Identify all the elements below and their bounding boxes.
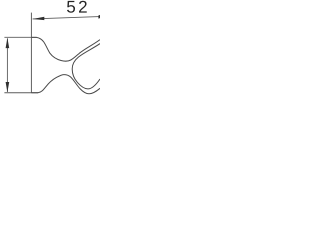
object bottom edge: fillet, hump, outer cup bottom [31, 75, 100, 94]
top edge extension line [4, 36, 36, 38]
arrowhead down (left dim) [6, 82, 10, 92]
rim ellipse (inner edge of cup mouth) [72, 44, 100, 89]
object top edge: fillet, saddle, upper flare [31, 37, 100, 61]
arrowhead right stub at edge (52 dim) [98, 15, 100, 19]
bottom edge extension line [4, 92, 38, 94]
arrowhead left (52 dim) [33, 17, 45, 20]
wall plate back line / extension line [30, 13, 32, 93]
vertical dimension line (left) [6, 38, 8, 92]
dimension line 52 (slanted slightly) [33, 17, 100, 19]
arrowhead up (left dim) [6, 38, 10, 48]
dimension text 52 (digit 2) [79, 1, 87, 13]
dimension text 52 (digit 5) [67, 1, 75, 13]
